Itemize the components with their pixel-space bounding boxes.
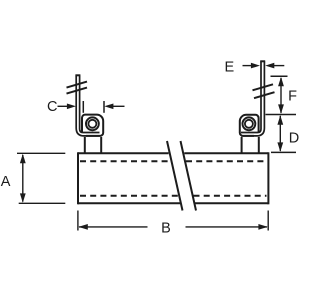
svg-text:E: E [224, 59, 234, 75]
dimension B arrow line [79, 226, 267, 228]
dimension D arrowheads [277, 115, 283, 152]
right lug base [242, 137, 259, 153]
left lug hole [88, 120, 96, 128]
hidden core dashed line top [80, 160, 267, 162]
dimension F/D divider extension line [266, 114, 297, 116]
dimension A extension lines [17, 153, 65, 203]
right lead wire [241, 62, 264, 136]
right lead wire top cap [260, 60, 265, 62]
svg-text:D: D [289, 130, 299, 146]
right lug eyelet outer [243, 117, 256, 130]
dimension C right arrow [104, 104, 113, 110]
resistor body outline [78, 152, 268, 204]
dimension F arrowheads [278, 77, 284, 114]
dimension F arrow line [280, 78, 282, 113]
dimension C tick right [103, 101, 105, 113]
body break lines [167, 141, 196, 211]
left lug base [85, 137, 101, 153]
dimension E left arrow [243, 65, 252, 67]
dimension B extension lines [78, 211, 268, 231]
svg-text:F: F [288, 89, 297, 105]
svg-text:C: C [47, 99, 57, 115]
dimension E right arrow [265, 63, 274, 69]
right lug tab [240, 115, 259, 136]
left lead wire [76, 76, 99, 136]
dimension A arrow line [22, 155, 24, 202]
dimension C left arrow [58, 105, 69, 107]
left lead break marks [67, 82, 88, 94]
svg-text:B: B [161, 221, 171, 237]
left lug eyelet outer [86, 117, 99, 130]
dimension D arrow line [279, 116, 281, 151]
svg-text:A: A [1, 174, 11, 190]
hidden core dashed line bottom [80, 195, 267, 197]
right lead break marks [253, 84, 275, 98]
dimension A arrowheads [20, 154, 26, 203]
dimension B arrowheads [78, 224, 267, 230]
dimension D bottom extension line [271, 151, 296, 153]
left lug tab [82, 115, 103, 136]
dimension F top extension line [271, 75, 288, 77]
left lead wire top cap [75, 74, 80, 76]
right lug hole [245, 120, 253, 128]
dimension C tick left [82, 101, 84, 113]
